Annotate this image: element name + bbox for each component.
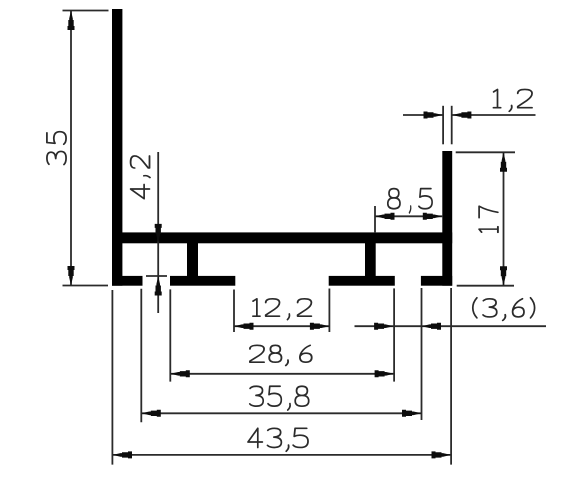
dim 43,5 label (248, 428, 308, 451)
dim 3,6 label (473, 298, 535, 321)
dim 12,2 dimension line (234, 325, 329, 327)
profile stem 2 (365, 243, 376, 277)
dim 8,5 label (388, 189, 432, 213)
dim 43,5 arrow right (432, 451, 452, 458)
dim 3,6 dimension line (355, 325, 547, 327)
dim 12,2 label (253, 299, 312, 320)
dim 35,8 label (250, 386, 309, 410)
dim 1,2 extension line left (442, 106, 444, 145)
dim 1,2 label (493, 89, 532, 111)
dim 43,5 extension line left (111, 290, 113, 465)
dim 8,5 arrow left (375, 213, 395, 220)
dim 12,2 arrow left (234, 323, 254, 330)
dim 17 arrow down (500, 266, 507, 286)
profile right foot (421, 276, 452, 286)
dim 43,5 arrow left (113, 451, 133, 458)
dim 1,2 extension line right (451, 106, 453, 145)
dim 28,6 arrow right (375, 370, 395, 377)
dim 8,5 extension line (374, 206, 376, 233)
dim 1,2 dimension line left part (403, 114, 443, 116)
dim 4,2 arrow up at feet (155, 276, 162, 296)
dim 17 arrow up (500, 152, 507, 172)
dim 35,8 dimension line (141, 412, 421, 414)
dim 1,2 dimension line right part (452, 114, 536, 116)
profile right wall (442, 151, 452, 286)
dim 35,8 extension line left (140, 289, 142, 422)
dim 4,2 arrow down at web (155, 224, 162, 244)
dim 35 arrow up (68, 11, 75, 31)
dim 12,2 arrow right (310, 323, 330, 330)
dim 43,5 extension line right (450, 288, 452, 465)
dim 17 extension line top (456, 151, 515, 153)
dim 3,6 arrow at right ext (422, 323, 442, 330)
dim 1,2 arrow left (452, 112, 472, 119)
dim 12,2 extension line right (328, 289, 330, 333)
dim 3,6 extension line left (393, 288, 395, 381)
dim 35 arrow down (68, 266, 75, 286)
profile foot 2 (329, 276, 395, 286)
dim 35,8 arrow left (141, 410, 161, 417)
dim 28,6 arrow left (170, 370, 190, 377)
dim 17 extension line bottom (457, 285, 514, 287)
dim 28,6 dimension line (170, 373, 394, 375)
dim 43,5 dimension line (113, 454, 452, 456)
dim 8,5 arrow right (423, 213, 443, 220)
dim 35,8 arrow right (402, 410, 422, 417)
dim 8,5 dimension line (375, 215, 442, 217)
dim 1,2 arrow right (424, 112, 444, 119)
profile stem 1 (187, 243, 198, 277)
dim 4,2 dimension line (157, 152, 159, 313)
profile foot 1 (170, 276, 235, 286)
dim 35 label (47, 132, 66, 165)
profile left wall (112, 9, 122, 286)
dim 35 extension line top (63, 10, 109, 12)
dim 12,2 extension line left (233, 290, 235, 333)
dim 3,6 extension line right (421, 288, 423, 420)
dim 17 label (479, 206, 498, 232)
dim 35 dimension line (70, 11, 72, 286)
profile left foot (112, 276, 143, 286)
dim 3,6 arrow at left ext (374, 323, 394, 330)
dim 28,6 label (250, 345, 312, 365)
dim 4,2 label (131, 156, 150, 199)
dim 28,6 extension line left (169, 289, 171, 381)
profile web (112, 232, 452, 243)
dim 35 extension line bottom (63, 285, 109, 287)
dim 4,2 extension tick (146, 275, 167, 277)
dim 17 dimension line (503, 152, 505, 285)
